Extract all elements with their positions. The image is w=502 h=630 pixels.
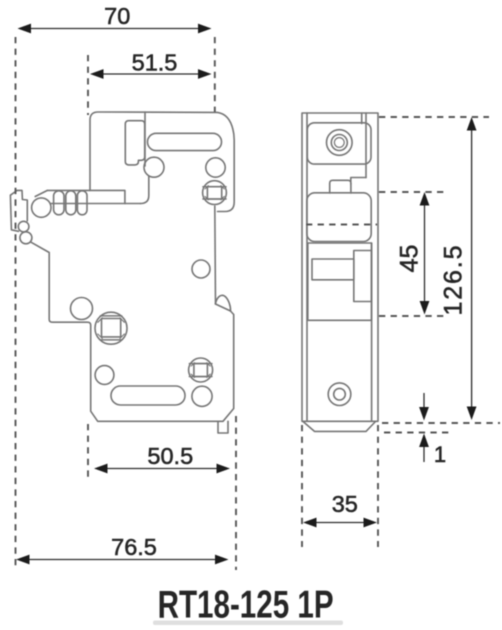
front view: top screw inner [334, 138, 344, 148]
front view: short corner line [361, 113, 363, 124]
side view: top block outline [90, 112, 234, 212]
side view: bottom slot [111, 386, 185, 405]
extension line x88 upper [87, 55, 89, 115]
side view: circle lower-right [192, 386, 212, 406]
extension line front-right [377, 425, 379, 547]
side view: notch hook arc [216, 295, 231, 311]
side view: lower-left outline [31, 242, 234, 421]
front view: step under block [351, 178, 366, 185]
extension line mid horizontal [379, 191, 446, 193]
front view: inner left edge [306, 113, 308, 421]
svg-text:51.5: 51.5 [132, 49, 178, 75]
front view: bottom trapezoid [303, 422, 376, 432]
front view: outer body rect [302, 113, 378, 421]
front view: inner right edge lower [371, 243, 373, 421]
front view: top screw outer [327, 130, 353, 156]
front view: top block [307, 123, 371, 164]
side view: handle back plate [144, 112, 146, 166]
side view: screw-to-notch line [214, 206, 217, 304]
side view: clip lobe 1 [18, 221, 29, 232]
side view: handle knob [125, 121, 144, 165]
extension line bottom horizontal 2 [384, 432, 450, 434]
side view: circle lower-left [95, 366, 114, 385]
side view: spring coil 2 [66, 191, 76, 215]
extension line top horizontal [379, 116, 489, 118]
scan smudge under title [153, 621, 343, 626]
dashed through carrier [306, 224, 377, 226]
side view: DIN clip body [10, 190, 27, 231]
dimension 76.5 line [20, 559, 226, 561]
svg-text:76.5: 76.5 [111, 534, 157, 560]
side view: spring top diagonal [35, 190, 47, 196]
extension line x234.8 [235, 416, 237, 570]
dimension 51.5 line [93, 73, 208, 75]
front view: carrier block [307, 193, 371, 242]
front view: bottom screw outer [328, 383, 351, 406]
front view: lower compartment [308, 243, 372, 320]
side view: circle right upper [206, 158, 225, 177]
svg-text:50.5: 50.5 [147, 443, 193, 469]
side view: spring coil 1 [54, 191, 64, 215]
side view: circle upper-right of body [192, 260, 210, 278]
front view: face right edge top [365, 113, 367, 178]
side view: screw upper-right [203, 181, 227, 205]
side view: link bar bottom edge [51, 203, 141, 205]
side view: top slot [148, 133, 222, 150]
extension line bottom horizontal 1 [382, 422, 500, 424]
front view: small tab [330, 180, 351, 193]
svg-text:126.5: 126.5 [439, 246, 467, 316]
extension line x211 [214, 37, 216, 112]
dimension 50.5 line [97, 468, 227, 470]
svg-text:45: 45 [395, 245, 423, 273]
side view: pivot arm curve [141, 177, 149, 204]
svg-text:1: 1 [434, 442, 446, 467]
extension line x88 lower [87, 424, 89, 477]
dimension 1 lower arrow [423, 446, 425, 462]
extension line front-left [301, 425, 303, 547]
side view: circle near handle [144, 157, 164, 177]
svg-text:35: 35 [332, 491, 358, 517]
dimension 35 line [306, 522, 374, 524]
side view: circle mid-left [71, 298, 93, 320]
svg-text:RT18-125 1P: RT18-125 1P [158, 583, 334, 626]
front view: window vertical bar [354, 251, 372, 302]
dimension 45 line [424, 195, 426, 311]
dimension 1 upper arrow [423, 393, 425, 409]
side view: spring circle [32, 198, 51, 217]
front view: bottom screw inner [334, 388, 346, 400]
side view: bottom tab [218, 421, 228, 433]
extension line lower horizontal [379, 315, 446, 317]
svg-text:70: 70 [104, 3, 130, 29]
side view: spring coil 3 [77, 191, 87, 215]
front view: window horizontal bar [312, 259, 354, 280]
dimension 126.5 line [471, 120, 473, 417]
front view: top screw mid [331, 135, 347, 151]
dimension 70 line [21, 28, 208, 30]
side view: screw big mid [95, 312, 127, 344]
extension line far left [15, 37, 17, 570]
side view: link bar top edge [47, 190, 125, 203]
side view: clip lobe 2 [20, 232, 32, 244]
side view: screw lower-right [189, 358, 213, 382]
